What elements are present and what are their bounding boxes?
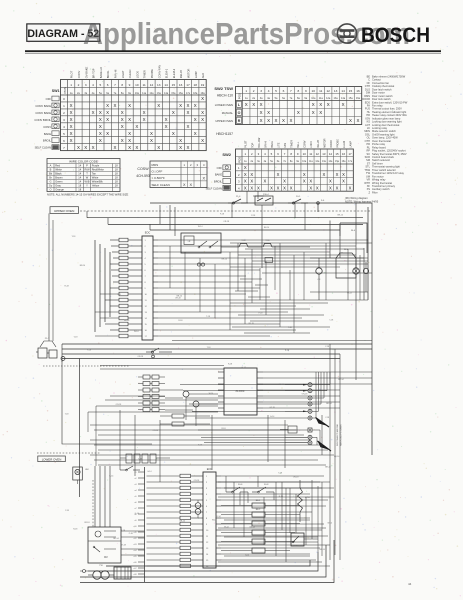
svg-text:X: X bbox=[99, 131, 102, 136]
svg-text:X: X bbox=[316, 185, 319, 190]
svg-text:17a: 17a bbox=[186, 92, 191, 95]
svg-text:PROBE: PROBE bbox=[336, 139, 339, 148]
svg-text:X: X bbox=[179, 145, 182, 150]
svg-text:X: X bbox=[183, 183, 186, 187]
svg-text:W-14: W-14 bbox=[327, 522, 331, 524]
lower oven label bbox=[38, 456, 66, 462]
svg-text:BR-14: BR-14 bbox=[80, 265, 85, 267]
svg-text:X: X bbox=[264, 179, 267, 184]
wire H6 bbox=[95, 239, 142, 241]
svg-text:X: X bbox=[189, 183, 192, 187]
svg-text:a7: a7 bbox=[135, 508, 137, 510]
svg-text:LIGHT: LIGHT bbox=[121, 70, 125, 78]
svg-text:Y-18: Y-18 bbox=[65, 510, 69, 512]
svg-text:T-18: T-18 bbox=[329, 320, 333, 322]
svg-text:20-1: 20-1 bbox=[296, 196, 301, 198]
svg-text:R-18: R-18 bbox=[178, 320, 182, 322]
svg-text:R-18: R-18 bbox=[65, 286, 69, 288]
svg-text:Red/White: Red/White bbox=[92, 168, 105, 172]
svg-text:X: X bbox=[322, 172, 325, 177]
svg-text:G-14: G-14 bbox=[109, 476, 113, 478]
svg-text:CONV BAKE: CONV BAKE bbox=[35, 104, 51, 108]
element resistor R6 bbox=[221, 548, 290, 553]
wire trunk V12 bbox=[79, 359, 81, 498]
svg-text:a11: a11 bbox=[134, 532, 137, 534]
wire V x262 bbox=[261, 224, 263, 268]
svg-text:X: X bbox=[121, 124, 124, 129]
svg-text:a13: a13 bbox=[134, 544, 137, 546]
switch SW2 rotated column headers bbox=[245, 137, 353, 148]
svg-text:POS: POS bbox=[238, 157, 242, 163]
svg-text:W-14: W-14 bbox=[294, 546, 298, 548]
svg-text:21-7: 21-7 bbox=[45, 338, 50, 340]
wire color code table bbox=[47, 159, 120, 192]
wire fan to terminals bbox=[180, 384, 308, 443]
wire mid feeders bbox=[90, 425, 334, 465]
svg-text:Yellow: Yellow bbox=[92, 184, 100, 188]
svg-text:CONV: CONV bbox=[43, 125, 51, 129]
svg-text:X: X bbox=[201, 138, 204, 143]
svg-text:OFF: OFF bbox=[46, 97, 52, 101]
svg-text:SW2: SW2 bbox=[222, 152, 231, 157]
svg-text:O: O bbox=[49, 188, 51, 192]
svg-text:19a: 19a bbox=[200, 92, 205, 95]
wire right trunk V6 bbox=[367, 207, 369, 300]
svg-text:X: X bbox=[128, 103, 131, 108]
svg-text:W-14: W-14 bbox=[198, 226, 202, 228]
svg-text:7: 7 bbox=[114, 83, 116, 87]
svg-text:21-4: 21-4 bbox=[236, 196, 241, 198]
svg-text:a5: a5 bbox=[135, 496, 137, 498]
resistor ladder RN1 bbox=[110, 238, 136, 290]
transformer TR1 bbox=[88, 565, 114, 579]
svg-text:X: X bbox=[342, 102, 345, 107]
svg-text:Y-18: Y-18 bbox=[325, 346, 329, 348]
svg-text:X: X bbox=[309, 179, 312, 184]
svg-text:CONV BROIL: CONV BROIL bbox=[34, 118, 51, 122]
wire DM box links bbox=[121, 531, 145, 555]
svg-text:LOWER OVEN: LOWER OVEN bbox=[215, 103, 233, 107]
svg-text:X: X bbox=[165, 124, 168, 129]
svg-text:X: X bbox=[128, 138, 131, 143]
svg-text:X: X bbox=[157, 145, 160, 150]
svg-text:ELEM-1: ELEM-1 bbox=[165, 68, 169, 78]
mode selector MDS chart bbox=[150, 161, 207, 188]
svg-text:R-18: R-18 bbox=[198, 445, 202, 447]
wire mid bus H10 bbox=[62, 358, 340, 360]
svg-text:14: 14 bbox=[329, 152, 333, 156]
svg-text:X: X bbox=[106, 110, 109, 115]
svg-text:Br: Br bbox=[49, 176, 52, 180]
svg-text:X: X bbox=[319, 102, 322, 107]
svg-text:X: X bbox=[201, 96, 204, 101]
svg-text:BELL: BELL bbox=[297, 141, 300, 148]
svg-text:15: 15 bbox=[335, 152, 339, 156]
svg-text:POS: POS bbox=[238, 93, 242, 99]
svg-text:BR-LOW: BR-LOW bbox=[258, 137, 261, 148]
svg-text:3: 3 bbox=[85, 83, 87, 87]
wire bottom bus H12 bbox=[88, 552, 318, 571]
switch SW2 contact X marks bbox=[238, 165, 352, 190]
svg-text:UPPER OVEN: UPPER OVEN bbox=[54, 209, 74, 213]
wire feeder V10 bbox=[104, 248, 106, 322]
svg-text:White: White bbox=[55, 168, 62, 172]
svg-text:X: X bbox=[303, 172, 306, 177]
svg-text:TIMER: TIMER bbox=[291, 140, 294, 148]
wire bottom bus H11 bbox=[106, 560, 310, 566]
svg-text:G-14: G-14 bbox=[339, 252, 343, 254]
wire bus H3 bbox=[108, 223, 363, 225]
svg-text:OR-18: OR-18 bbox=[152, 430, 158, 432]
svg-text:OR-18: OR-18 bbox=[116, 404, 122, 406]
svg-text:X: X bbox=[186, 145, 189, 150]
svg-text:X: X bbox=[77, 145, 80, 150]
svg-text:X: X bbox=[121, 110, 124, 115]
svg-text:X: X bbox=[135, 124, 138, 129]
svg-text:Y-18: Y-18 bbox=[74, 336, 78, 338]
svg-text:X: X bbox=[157, 103, 160, 108]
svg-text:X: X bbox=[250, 172, 253, 177]
wire feeder V9 bbox=[99, 244, 101, 327]
svg-text:X: X bbox=[143, 117, 146, 122]
svg-text:POS: POS bbox=[63, 87, 67, 93]
wire mid vertical drops bbox=[120, 344, 340, 560]
svg-text:UPPER OVEN: UPPER OVEN bbox=[215, 119, 233, 123]
svg-text:11a: 11a bbox=[319, 97, 324, 100]
svg-text:1: 1 bbox=[70, 83, 72, 87]
convection fan motor M1 bbox=[316, 258, 322, 300]
svg-text:BR-14: BR-14 bbox=[338, 379, 343, 381]
svg-text:OR-18: OR-18 bbox=[175, 298, 181, 300]
switch SW2 labels and cam icons bbox=[206, 152, 232, 190]
svg-text:O | OFF: O | OFF bbox=[152, 170, 163, 174]
svg-text:10: 10 bbox=[312, 89, 316, 93]
svg-text:HBCH1157: HBCH1157 bbox=[216, 132, 233, 136]
svg-text:X: X bbox=[312, 110, 315, 115]
svg-text:BR-14: BR-14 bbox=[326, 403, 331, 405]
svg-text:OR-18: OR-18 bbox=[293, 476, 299, 478]
wire fanout module right bbox=[158, 240, 368, 336]
svg-text:30-8: 30-8 bbox=[264, 484, 269, 486]
svg-text:13: 13 bbox=[322, 152, 326, 156]
door lock assembly left bbox=[36, 338, 65, 361]
svg-text:14a: 14a bbox=[164, 92, 169, 95]
svg-text:RELAY: RELAY bbox=[317, 139, 320, 147]
svg-text:a1: a1 bbox=[135, 472, 137, 474]
svg-text:12: 12 bbox=[316, 152, 320, 156]
svg-text:R-18: R-18 bbox=[228, 364, 232, 366]
svg-text:W-14: W-14 bbox=[134, 331, 138, 333]
svg-text:BR-14: BR-14 bbox=[325, 466, 330, 468]
svg-text:G-14: G-14 bbox=[242, 367, 246, 369]
svg-text:BAKE: BAKE bbox=[271, 141, 274, 148]
wire dashed above lower oven label bbox=[37, 452, 100, 454]
svg-text:15a: 15a bbox=[171, 92, 176, 95]
svg-text:OR-18: OR-18 bbox=[194, 480, 200, 482]
wire mid extra bbox=[62, 344, 218, 466]
svg-text:X: X bbox=[92, 145, 95, 150]
svg-text:Y-18: Y-18 bbox=[325, 417, 329, 419]
svg-text:a14: a14 bbox=[134, 550, 137, 552]
svg-text:FAN-HI: FAN-HI bbox=[114, 69, 118, 78]
wire upper mesh extra bbox=[230, 243, 372, 333]
wire bus H4 bbox=[150, 229, 340, 231]
svg-text:G-14: G-14 bbox=[147, 471, 151, 473]
thermostat TH1 zigzag bbox=[298, 480, 311, 522]
svg-text:P-18: P-18 bbox=[129, 533, 133, 535]
wire fanout vertical drops bbox=[170, 246, 304, 330]
svg-text:P-18: P-18 bbox=[87, 349, 91, 351]
svg-text:17: 17 bbox=[348, 152, 352, 156]
svg-text:a4: a4 bbox=[135, 490, 137, 492]
svg-text:14: 14 bbox=[164, 83, 168, 87]
svg-text:10a: 10a bbox=[311, 97, 316, 100]
svg-text:X: X bbox=[135, 145, 138, 150]
svg-text:T-18: T-18 bbox=[207, 347, 211, 349]
svg-text:X: X bbox=[99, 138, 102, 143]
svg-text:LOCK: LOCK bbox=[310, 141, 313, 148]
svg-text:X: X bbox=[342, 172, 345, 177]
svg-text:TIMER: TIMER bbox=[143, 70, 147, 78]
svg-text:X: X bbox=[99, 124, 102, 129]
svg-text:TOP: TOP bbox=[251, 142, 254, 147]
element resistor R4 bbox=[221, 530, 295, 535]
svg-text:X: X bbox=[312, 102, 315, 107]
svg-text:CONV-FAN: CONV-FAN bbox=[157, 65, 161, 78]
svg-text:PILOT: PILOT bbox=[245, 140, 248, 148]
svg-text:X: X bbox=[113, 103, 116, 108]
svg-text:230-4: 230-4 bbox=[263, 194, 269, 196]
svg-text:MOTOR: MOTOR bbox=[323, 138, 326, 147]
svg-text:X: X bbox=[106, 131, 109, 136]
svg-text:Filter: Filter bbox=[372, 190, 378, 194]
contact pair CP1 bbox=[197, 263, 204, 266]
svg-text:ELEM-2: ELEM-2 bbox=[172, 68, 176, 78]
svg-text:8: 8 bbox=[121, 83, 123, 87]
svg-text:a9: a9 bbox=[135, 520, 137, 522]
svg-text:X: X bbox=[194, 131, 197, 136]
svg-text:X: X bbox=[70, 117, 73, 122]
svg-text:X: X bbox=[121, 138, 124, 143]
wire terminal right links bbox=[312, 372, 330, 445]
svg-text:a10: a10 bbox=[134, 526, 137, 528]
svg-text:CONV: CONV bbox=[77, 70, 81, 78]
wire upper-right mesh bbox=[310, 203, 368, 300]
thermal cutout TOD2 bbox=[263, 240, 310, 247]
svg-text:SW2 TSW: SW2 TSW bbox=[214, 86, 233, 91]
svg-text:a15: a15 bbox=[134, 556, 137, 558]
oven selector TSW labels bbox=[214, 86, 233, 136]
svg-text:10: 10 bbox=[135, 83, 139, 87]
svg-text:Y-18: Y-18 bbox=[278, 473, 282, 475]
wire bottom bus H13 bbox=[80, 545, 326, 577]
svg-text:R-18: R-18 bbox=[73, 529, 77, 531]
lamp E2 bbox=[363, 262, 368, 292]
junction boxes mid-bottom bbox=[120, 454, 170, 463]
svg-text:BAKE-LO: BAKE-LO bbox=[99, 67, 103, 78]
wire lower fanout bbox=[221, 476, 334, 566]
svg-text:OR-18: OR-18 bbox=[223, 221, 229, 223]
svg-text:X: X bbox=[327, 102, 330, 107]
svg-text:A: A bbox=[50, 164, 52, 168]
svg-text:9: 9 bbox=[305, 89, 307, 93]
resistor ladder RN3 bbox=[147, 474, 198, 567]
svg-text:> 0-500°F: > 0-500°F bbox=[152, 176, 165, 180]
terminal strip TB1 bbox=[285, 383, 312, 445]
switch S5 bake bbox=[226, 484, 248, 493]
svg-text:13: 13 bbox=[334, 89, 338, 93]
element resistor R5 bbox=[221, 539, 295, 544]
svg-text:X: X bbox=[70, 138, 73, 143]
switch SW1 row labels and cam icons bbox=[34, 96, 59, 150]
svg-text:15: 15 bbox=[172, 83, 176, 87]
svg-text:T-18: T-18 bbox=[65, 414, 69, 416]
svg-text:X: X bbox=[349, 118, 352, 123]
svg-text:Green: Green bbox=[55, 180, 63, 184]
svg-text:X: X bbox=[150, 138, 153, 143]
svg-text:16a: 16a bbox=[356, 97, 361, 100]
svg-text:CONV: CONV bbox=[304, 140, 307, 148]
svg-text:NOTE: ALL NUMBERS 14-15 GA WIR: NOTE: ALL NUMBERS 14-15 GA WIRES EXCEPT … bbox=[47, 193, 129, 197]
svg-text:G-14: G-14 bbox=[135, 513, 139, 515]
wire mid-left dashed bbox=[43, 365, 130, 367]
wire top feeder drops bbox=[87, 203, 305, 236]
svg-text:X: X bbox=[84, 145, 87, 150]
switch S1 oven light bbox=[228, 196, 248, 204]
svg-text:X: X bbox=[277, 185, 280, 190]
svg-text:X: X bbox=[277, 172, 280, 177]
svg-text:LAMP: LAMP bbox=[350, 141, 353, 148]
resistor ladder RN2 bbox=[95, 292, 136, 338]
svg-text:11: 11 bbox=[319, 89, 322, 93]
wire right trunk V7 bbox=[371, 203, 373, 455]
svg-text:X: X bbox=[289, 118, 292, 123]
wire feeder V8 bbox=[94, 240, 96, 332]
svg-text:OFF: OFF bbox=[217, 166, 223, 170]
wire bus H2 bbox=[87, 217, 363, 219]
svg-text:BAKE: BAKE bbox=[215, 173, 222, 177]
svg-text:4CH-593: 4CH-593 bbox=[136, 174, 150, 178]
selector switch SW1 function chart rotated column headers bbox=[70, 65, 205, 78]
svg-text:X: X bbox=[336, 185, 339, 190]
svg-text:15a: 15a bbox=[348, 97, 353, 100]
svg-text:BR-14: BR-14 bbox=[338, 215, 343, 217]
connector CN1 bbox=[138, 375, 165, 412]
svg-text:X: X bbox=[297, 110, 300, 115]
svg-text:SELF CLEAN: SELF CLEAN bbox=[35, 146, 51, 150]
switch S7 mid bbox=[146, 348, 172, 358]
svg-text:X: X bbox=[283, 179, 286, 184]
svg-text:X: X bbox=[201, 110, 204, 115]
svg-text:X: X bbox=[260, 110, 263, 115]
svg-text:White/Blk: White/Blk bbox=[92, 180, 104, 184]
svg-text:Gray: Gray bbox=[55, 184, 61, 188]
svg-text:Y: Y bbox=[86, 184, 88, 188]
svg-text:T-18: T-18 bbox=[121, 530, 125, 532]
svg-text:X: X bbox=[99, 117, 102, 122]
svg-text:11: 11 bbox=[309, 152, 312, 156]
svg-text:BK-14: BK-14 bbox=[264, 227, 269, 229]
svg-text:19: 19 bbox=[201, 83, 205, 87]
svg-text:11: 11 bbox=[143, 83, 146, 87]
svg-text:COSW: COSW bbox=[137, 167, 149, 171]
svg-text:Purple: Purple bbox=[92, 164, 100, 168]
wire feeder V11 bbox=[109, 252, 111, 317]
svg-text:T-18: T-18 bbox=[71, 236, 75, 238]
svg-text:10: 10 bbox=[303, 152, 307, 156]
relay block K2 bbox=[181, 233, 221, 253]
wire dashed drop M2 bbox=[92, 480, 94, 527]
svg-text:X: X bbox=[92, 110, 95, 115]
Bosch armature logo bbox=[337, 24, 356, 43]
svg-text:LOWER OVEN: LOWER OVEN bbox=[42, 457, 62, 461]
terminal block TB2 bbox=[114, 567, 131, 579]
note top right bbox=[345, 196, 379, 204]
switch S4 bbox=[120, 466, 140, 471]
svg-text:13: 13 bbox=[157, 83, 161, 87]
svg-text:X: X bbox=[244, 172, 247, 177]
switch SW1 chart grid bbox=[61, 80, 207, 151]
svg-text:a12: a12 bbox=[134, 538, 137, 540]
svg-text:X: X bbox=[194, 117, 197, 122]
svg-text:X: X bbox=[244, 165, 247, 170]
wire bottom bus H14 bbox=[80, 540, 334, 583]
svg-text:SELF CLEAN: SELF CLEAN bbox=[152, 183, 170, 187]
svg-text:a2: a2 bbox=[135, 478, 137, 480]
svg-text:X: X bbox=[70, 131, 73, 136]
svg-text:12a: 12a bbox=[149, 92, 154, 95]
svg-text:BK-14: BK-14 bbox=[215, 516, 220, 518]
svg-text:T-18: T-18 bbox=[117, 294, 121, 296]
svg-text:CONV BAKE: CONV BAKE bbox=[35, 111, 51, 115]
svg-text:a18: a18 bbox=[134, 574, 137, 576]
svg-text:X: X bbox=[357, 118, 360, 123]
svg-text:X: X bbox=[257, 185, 260, 190]
svg-text:RELAY: RELAY bbox=[179, 70, 183, 79]
cooling fan motor M2 bbox=[73, 467, 89, 484]
svg-text:CLOCK: CLOCK bbox=[236, 389, 245, 393]
svg-text:X: X bbox=[194, 103, 197, 108]
svg-text:X: X bbox=[121, 117, 124, 122]
svg-text:CLEAN: CLEAN bbox=[128, 69, 132, 78]
svg-text:MDS: MDS bbox=[152, 163, 159, 167]
terminal strip note bbox=[337, 423, 343, 446]
svg-text:BOSCH: BOSCH bbox=[361, 24, 430, 47]
wire bus H1 dashed bbox=[80, 210, 372, 212]
svg-text:X: X bbox=[260, 102, 263, 107]
svg-text:12a: 12a bbox=[326, 97, 331, 100]
svg-text:11a: 11a bbox=[142, 92, 147, 95]
svg-text:X: X bbox=[309, 185, 312, 190]
svg-text:X: X bbox=[275, 118, 278, 123]
svg-text:SELF CLEAN: SELF CLEAN bbox=[206, 186, 222, 190]
svg-text:BK-14: BK-14 bbox=[124, 320, 129, 322]
svg-text:X: X bbox=[252, 102, 255, 107]
svg-text:EOC: EOC bbox=[145, 231, 151, 235]
svg-text:Red: Red bbox=[55, 164, 60, 168]
wire lower-left verticals bbox=[95, 466, 110, 527]
wire gauge labels bbox=[65, 213, 352, 556]
svg-text:X: X bbox=[165, 117, 168, 122]
upper oven label bbox=[50, 207, 79, 214]
svg-text:2: 2 bbox=[78, 83, 80, 87]
diagram number label box DIAGRAM - 52 bbox=[27, 24, 100, 41]
svg-text:18a: 18a bbox=[193, 92, 198, 95]
svg-text:MANUAL: MANUAL bbox=[222, 111, 234, 115]
svg-text:13a: 13a bbox=[157, 92, 162, 95]
svg-text:X: X bbox=[179, 138, 182, 143]
wire feeder links bbox=[52, 230, 110, 253]
